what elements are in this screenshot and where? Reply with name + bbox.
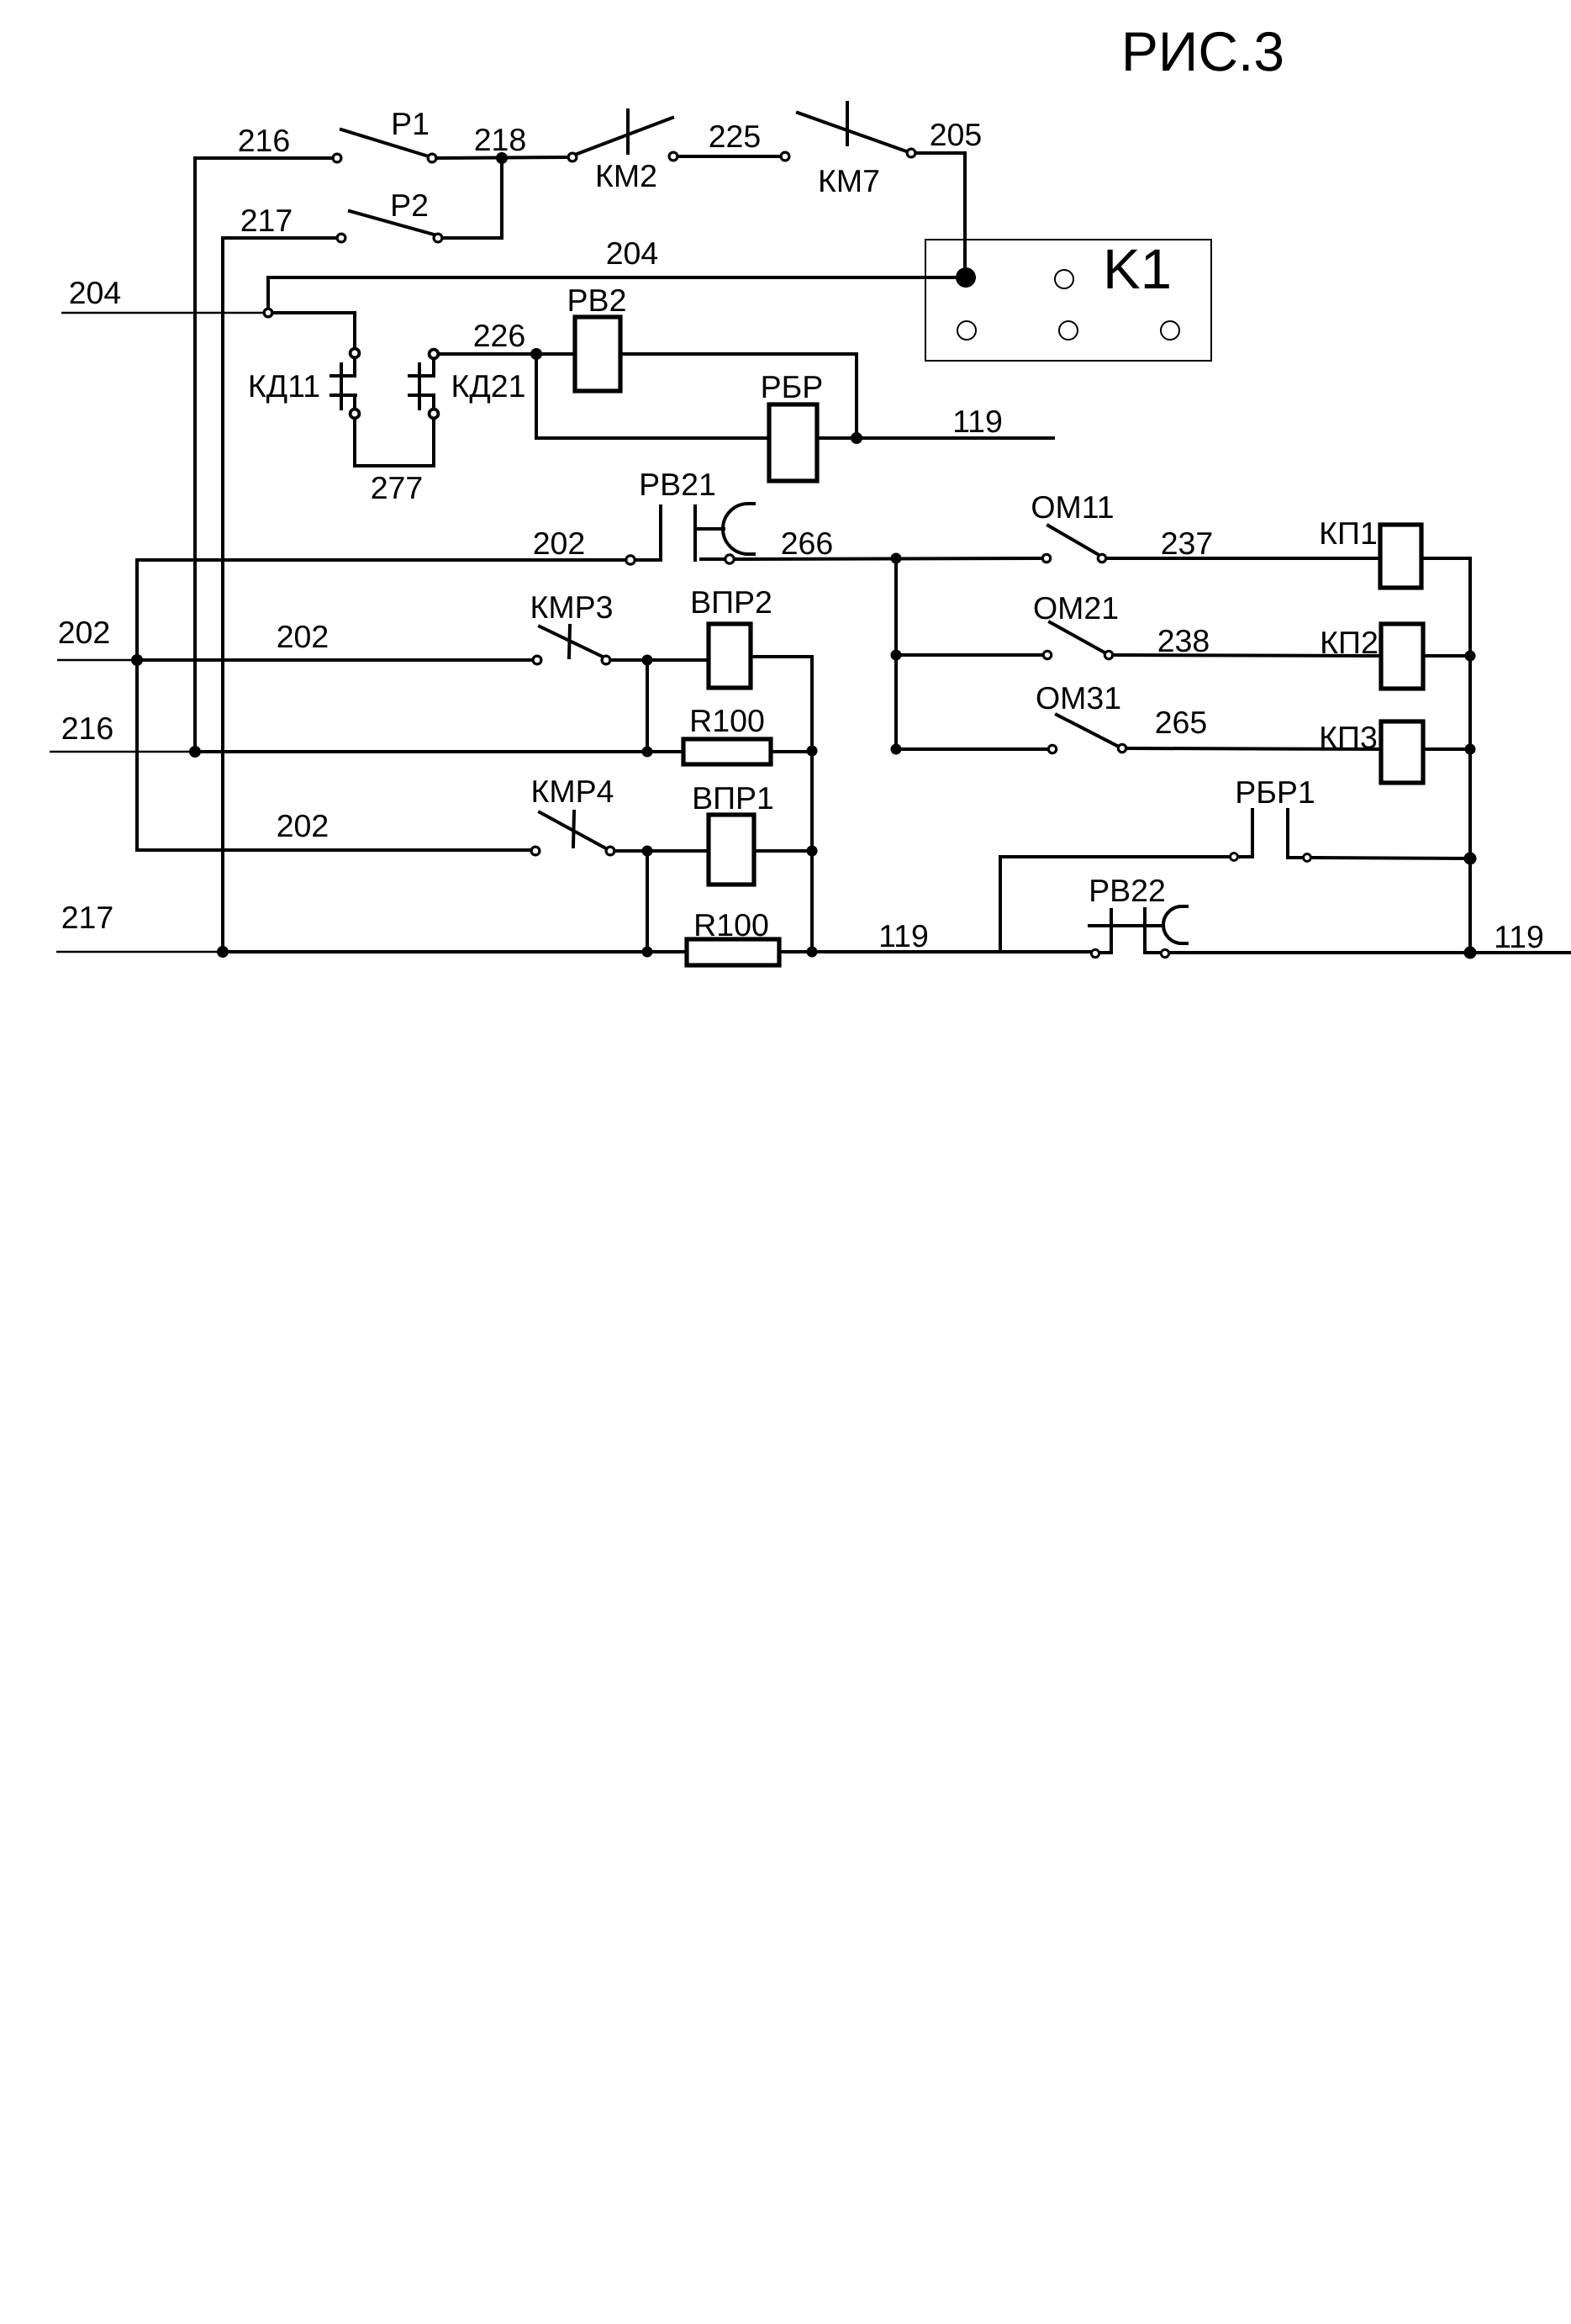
node K1 big junction dot	[956, 267, 976, 288]
svg-text:216: 216	[238, 123, 291, 158]
svg-text:КД21: КД21	[451, 368, 526, 404]
wire 226	[439, 352, 575, 356]
svg-text:ВПР2: ВПР2	[690, 584, 772, 620]
contact RV21	[635, 504, 754, 560]
wire OM31 row	[896, 747, 1048, 751]
label КМ2	[595, 158, 657, 193]
wire KMR3 to VPR2	[610, 658, 709, 662]
wire OM21 row	[896, 653, 1043, 657]
terminal RBR1 left	[1231, 853, 1238, 861]
contact OM11 blade	[1048, 526, 1100, 556]
wire KP2 right	[1423, 654, 1470, 658]
wire 218 segment P1-KM2	[436, 157, 569, 158]
terminal KMR3 right	[602, 656, 610, 664]
svg-text:266: 266	[781, 526, 834, 561]
terminal RV22 left	[1091, 949, 1099, 957]
wire 216 main	[195, 750, 683, 753]
terminal OM21 left	[1043, 651, 1051, 658]
wire 225 segment	[677, 155, 781, 158]
wire 119 middle	[857, 436, 1053, 440]
terminal KM2 left	[568, 153, 577, 161]
svg-text:КП2: КП2	[1320, 625, 1379, 660]
contact OM31 blade	[1057, 715, 1117, 746]
svg-text:238: 238	[1157, 623, 1210, 658]
wire 202 main to KMR3	[137, 658, 533, 662]
terminal KMR4 right	[606, 847, 614, 855]
label 204 upper	[606, 235, 659, 271]
terminal RBR1 right	[1304, 854, 1311, 862]
K1 terminal circle bottom middle	[1059, 321, 1078, 340]
svg-text:202: 202	[533, 526, 586, 561]
node KP2 bus	[1465, 651, 1476, 662]
terminal OM11 right	[1098, 554, 1105, 562]
label 217 top	[240, 203, 293, 238]
label ВПР2	[690, 584, 772, 620]
label ОМ21	[1033, 590, 1119, 626]
terminal 225 left	[669, 152, 677, 161]
node 119 mid	[851, 432, 862, 444]
relay coil KP2	[1381, 624, 1423, 689]
node OM31 junction	[891, 744, 902, 755]
svg-text:217: 217	[61, 900, 114, 935]
svg-text:РБР1: РБР1	[1235, 774, 1315, 810]
node KMR4-VPR1	[642, 846, 653, 857]
relay coil VPR2	[709, 624, 751, 688]
label 119 bottom right	[1494, 919, 1544, 954]
node KMR3-VPR2	[642, 655, 653, 666]
label КМР4	[531, 774, 614, 809]
contact KD21 body	[409, 359, 434, 409]
terminal P2 left	[337, 234, 345, 242]
label 202 left	[58, 615, 111, 650]
contact KM7 blade	[798, 113, 909, 152]
svg-text:РВ21: РВ21	[639, 467, 716, 502]
node 216 vertical end	[189, 746, 201, 758]
label R100 lower	[693, 907, 769, 943]
svg-text:237: 237	[1161, 526, 1214, 561]
relay coil RBR	[769, 404, 817, 481]
K1 terminal circle bottom left	[957, 321, 976, 340]
K1 terminal circle top middle	[1055, 270, 1073, 288]
svg-text:РВ2: РВ2	[567, 283, 627, 318]
terminal OM31 right	[1118, 744, 1126, 752]
svg-text:ОМ11: ОМ11	[1031, 489, 1114, 525]
svg-text:КД11: КД11	[248, 368, 320, 404]
label 265	[1155, 705, 1208, 740]
wire 217 main	[223, 950, 687, 953]
relay coil RV2	[575, 317, 620, 391]
wire 202 left stub	[57, 659, 133, 662]
label КП3	[1319, 720, 1378, 755]
svg-text:204: 204	[69, 275, 122, 310]
wire RBR right	[817, 436, 857, 440]
label РВ22	[1089, 873, 1166, 908]
label 202 kmr3	[277, 619, 329, 654]
terminal OM11 left	[1042, 554, 1050, 562]
label 204 left	[69, 275, 122, 310]
svg-text:202: 202	[277, 619, 329, 654]
resistor R100 lower	[687, 939, 779, 965]
svg-text:КП1: КП1	[1319, 515, 1378, 551]
svg-text:119: 119	[952, 404, 1003, 439]
svg-text:277: 277	[371, 470, 424, 505]
wire VPR2 right down	[751, 657, 812, 953]
node RBR1 bus	[1464, 853, 1477, 865]
contact KM7 tick	[846, 103, 849, 145]
node KP3 bus	[1465, 744, 1476, 755]
contact RBR1	[1235, 810, 1302, 858]
wire 119 bottom right	[1169, 951, 1571, 954]
terminal P1 right	[428, 154, 436, 162]
resistor R100 upper	[683, 739, 771, 764]
terminal KM7 right	[907, 149, 915, 157]
svg-text:217: 217	[240, 203, 293, 238]
node OM21 junction	[891, 650, 902, 661]
terminal 225 right	[781, 152, 789, 161]
wire junction 266 vertical	[894, 558, 898, 749]
label 237	[1161, 526, 1214, 561]
wire KMR4 to VPR1	[614, 849, 709, 853]
label R100 upper	[689, 703, 765, 738]
wire KP3 right	[1423, 747, 1470, 751]
wire VPR2-junction vertical	[646, 660, 649, 752]
svg-text:K1: K1	[1103, 238, 1172, 301]
K1 terminal circle bottom right	[1161, 321, 1179, 340]
label РВ21	[639, 467, 716, 502]
svg-text:216: 216	[61, 710, 114, 746]
label 216 top	[238, 123, 291, 158]
svg-text:РБР: РБР	[761, 369, 824, 404]
label 218	[474, 122, 527, 157]
contact OM21 blade	[1050, 622, 1104, 652]
wire 277 U-link	[355, 419, 434, 466]
svg-text:ВПР1: ВПР1	[692, 780, 774, 816]
wire net 217 top (corner to P2)	[223, 238, 340, 952]
terminal KD21 bottom	[430, 409, 439, 419]
node VPR1 right	[807, 846, 818, 857]
label 217 left	[61, 900, 114, 935]
svg-text:КМ7: КМ7	[818, 163, 880, 198]
terminal KMR3 left	[533, 656, 541, 664]
label КП1	[1319, 515, 1378, 551]
label РБР1	[1235, 774, 1315, 810]
wire 266	[735, 558, 1042, 559]
wire 217 left stub	[56, 951, 218, 953]
terminal P2 right	[434, 234, 442, 242]
node 202 left	[131, 654, 143, 666]
wire node226 down to RBR	[536, 354, 769, 438]
contact KMR4 tick	[573, 811, 574, 847]
wire net 216 top (corner to P1)	[195, 158, 337, 753]
terminal KD11 top	[351, 349, 360, 358]
relay coil KP3	[1381, 721, 1423, 783]
node 216 right	[807, 746, 818, 757]
contact KM2 tick	[626, 110, 630, 153]
relay coil VPR1	[709, 815, 754, 885]
terminal KMR4 left	[531, 847, 540, 855]
wire net 202 vertical with corners	[137, 560, 626, 850]
label 119 bottom left	[878, 918, 929, 953]
contact KMR3 tick	[569, 626, 570, 658]
svg-text:КМР4: КМР4	[531, 774, 614, 809]
svg-text:R100: R100	[693, 907, 769, 943]
terminal OM21 right	[1104, 651, 1112, 658]
wire 204 node to KD11	[274, 313, 355, 348]
node 119 bottom left	[807, 947, 818, 958]
wire RBR1 right to bus	[1311, 858, 1470, 858]
label КМ7	[818, 163, 880, 198]
wire RV2 right to node 119	[620, 354, 857, 438]
svg-text:Р2: Р2	[390, 188, 429, 223]
svg-text:ОМ31: ОМ31	[1036, 680, 1121, 716]
label 216 left	[61, 710, 114, 746]
label ОМ31	[1036, 680, 1121, 716]
svg-text:204: 204	[606, 235, 659, 271]
label 238	[1157, 623, 1210, 658]
node 119 bus bottom	[1464, 947, 1477, 959]
contact KM2 blade	[575, 118, 672, 155]
wire VPR1-junction vertical	[646, 851, 649, 952]
wire 204 left stub	[61, 312, 266, 314]
wire 205 KM7 to K1	[915, 153, 965, 271]
label 226	[473, 318, 526, 353]
node 217 vertical end	[217, 946, 229, 958]
terminal KD11 bottom	[351, 409, 360, 419]
svg-text:119: 119	[878, 918, 929, 953]
label Р1	[391, 106, 430, 141]
node 217 VPR1	[642, 947, 653, 958]
terminal P1 left	[333, 154, 341, 162]
contact KMR4 blade	[540, 812, 604, 848]
label 277	[371, 470, 424, 505]
node 226	[530, 348, 542, 360]
wire 119 bottom middle	[779, 950, 1092, 953]
contact KMR3 blade	[540, 626, 604, 658]
svg-text:225: 225	[709, 119, 762, 154]
label ВПР1	[692, 780, 774, 816]
node 218	[496, 152, 508, 164]
node 266 junction	[891, 553, 902, 564]
wire VPR1 right	[754, 849, 812, 853]
label title РИС.3	[1121, 20, 1284, 82]
svg-text:202: 202	[277, 808, 329, 843]
wire R100a right	[771, 750, 812, 753]
node 204 ring	[264, 309, 272, 317]
wire 238	[1114, 655, 1381, 656]
svg-text:R100: R100	[689, 703, 765, 738]
svg-text:119: 119	[1494, 919, 1544, 954]
svg-text:265: 265	[1155, 705, 1208, 740]
label 202 rv21	[533, 526, 586, 561]
label 202 kmr4	[277, 808, 329, 843]
terminal RV21 right	[725, 555, 734, 563]
svg-text:РВ22: РВ22	[1089, 873, 1166, 908]
terminal KD21 top	[430, 350, 439, 359]
contact P1 blade	[341, 129, 429, 156]
wire KP1 right down	[1421, 558, 1470, 953]
label ОМ11	[1031, 489, 1114, 525]
label РБР	[761, 369, 824, 404]
label 225	[709, 119, 762, 154]
label 205	[930, 117, 983, 152]
svg-text:ОМ21: ОМ21	[1033, 590, 1119, 626]
wire P2 to node 218	[442, 159, 502, 238]
svg-text:РИС.3: РИС.3	[1121, 20, 1284, 82]
label КД21	[451, 368, 526, 404]
wire RBR1 branch	[1000, 857, 1230, 952]
svg-text:КП3: КП3	[1319, 720, 1378, 755]
terminal RV21 left	[626, 556, 635, 564]
label 266	[781, 526, 834, 561]
relay coil KP1	[1380, 525, 1421, 588]
wire 265	[1127, 748, 1381, 749]
contact KD11 body	[331, 359, 356, 409]
svg-text:226: 226	[473, 318, 526, 353]
wire 237	[1106, 557, 1380, 560]
label КП2	[1320, 625, 1379, 660]
terminal block K1 box	[925, 240, 1211, 361]
label 119 mid	[952, 404, 1003, 439]
label РВ2	[567, 283, 627, 318]
terminal OM31 left	[1048, 745, 1056, 753]
contact P2 blade	[350, 211, 437, 235]
svg-text:КМ2: КМ2	[595, 158, 657, 193]
wire net 204 upper	[268, 277, 966, 308]
label K1	[1103, 238, 1172, 301]
node 216 VPR2	[642, 747, 653, 758]
label КД11	[248, 368, 320, 404]
svg-text:218: 218	[474, 122, 527, 157]
svg-text:202: 202	[58, 615, 111, 650]
label Р2	[390, 188, 429, 223]
svg-text:Р1: Р1	[391, 106, 430, 141]
svg-text:205: 205	[930, 117, 983, 152]
label КМР3	[530, 589, 614, 625]
terminal RV22 right	[1161, 949, 1168, 957]
svg-text:КМР3: КМР3	[530, 589, 614, 625]
wire 216 left stub	[50, 751, 191, 753]
contact RV22	[1089, 906, 1187, 953]
